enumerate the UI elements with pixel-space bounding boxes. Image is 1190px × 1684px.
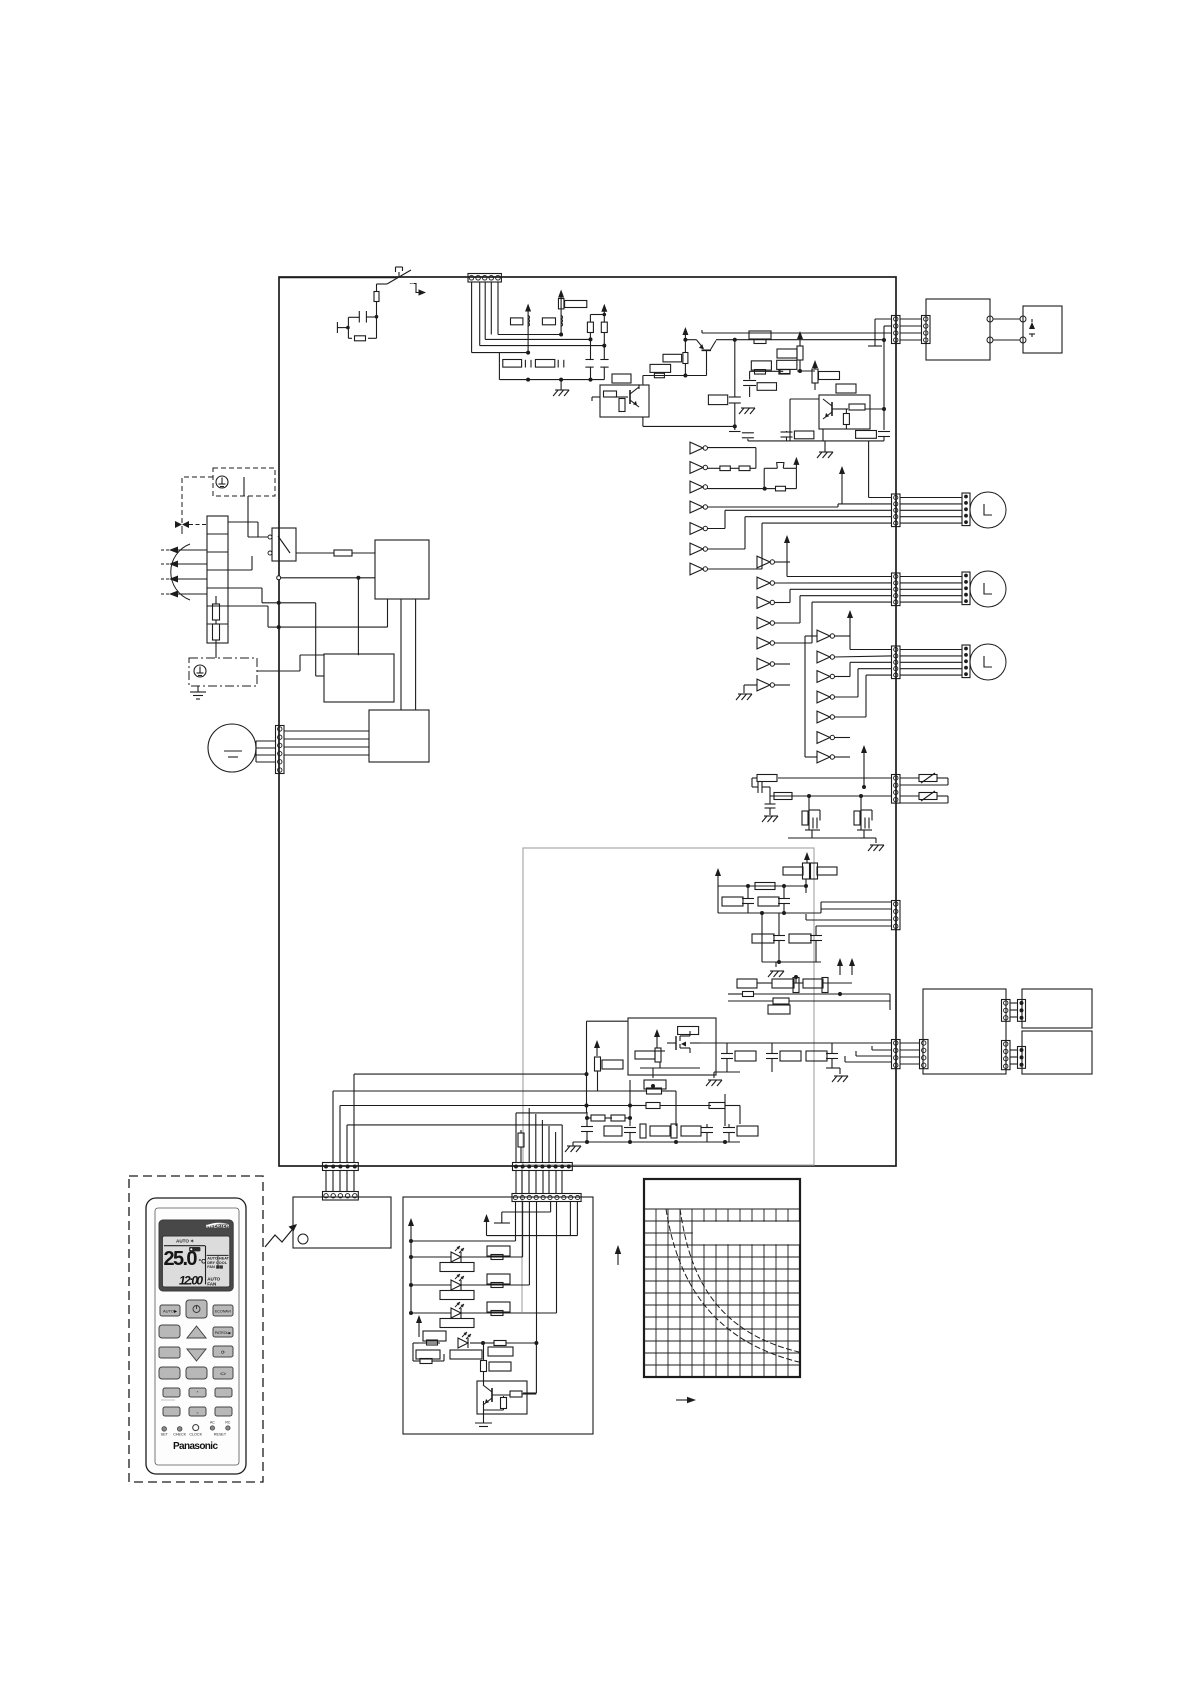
- connector CN-P: [892, 901, 901, 930]
- box LBL7: [488, 1347, 513, 1356]
- resistor R24: [742, 433, 754, 441]
- display pcb box: [923, 989, 1006, 1074]
- resistor R16: [812, 369, 818, 383]
- switch SW1: [387, 267, 411, 284]
- resistor RA1: [707, 466, 730, 471]
- capacitor C2: [558, 360, 564, 368]
- terminal plate: [337, 322, 349, 333]
- connector CN-R1: [892, 316, 901, 344]
- wire bb net1: [630, 1084, 676, 1104]
- capacitor CT2: [765, 796, 776, 815]
- box DISP2: [1022, 1031, 1092, 1074]
- bar sym: [494, 1219, 510, 1223]
- wire center cl: [750, 371, 784, 379]
- wire v543: [541, 1120, 543, 1163]
- ground GB1: [565, 1142, 581, 1152]
- wires CNR1-CNR2: [900, 319, 921, 340]
- indoor unit PCB outline: [279, 277, 896, 1166]
- box label B3: [708, 395, 727, 405]
- resistor RL1: [491, 1255, 503, 1260]
- buffer UB6: [757, 658, 775, 670]
- wire led3 dot: [409, 1311, 413, 1315]
- buffer UC7: [817, 751, 835, 763]
- graph y arrow: [615, 1245, 621, 1265]
- ground GT2: [868, 845, 884, 851]
- wire v563: [516, 1113, 587, 1163]
- wire e333: [702, 330, 892, 333]
- wire bus cn3: [485, 282, 592, 341]
- terminal strip TS1: [207, 516, 228, 643]
- box BQ3: [803, 979, 823, 988]
- wire uc7: [834, 756, 850, 758]
- shield box gray: [523, 848, 814, 1165]
- resistor Rsnub: [355, 336, 366, 341]
- wire v536: [535, 1114, 537, 1163]
- label box Q3: [612, 374, 631, 383]
- arrow A3: [160, 576, 207, 583]
- wire uc4: [834, 669, 892, 697]
- wire ua3: [707, 488, 764, 490]
- wire h1118: [0, 0, 1, 1]
- resistor R10: [650, 364, 671, 372]
- strip D1: [1018, 1000, 1026, 1022]
- resistor RP1: [803, 863, 810, 879]
- svg-text:CHECK: CHECK: [173, 1433, 186, 1437]
- box BB4: [681, 1126, 701, 1136]
- ground GT1: [762, 816, 778, 822]
- power arrow VQ1: [837, 958, 843, 975]
- led LED3: [451, 1302, 464, 1318]
- capacitor C6: [743, 381, 756, 398]
- remote lcd: [162, 1236, 229, 1287]
- box LBL5: [416, 1350, 440, 1359]
- box BP1: [722, 897, 743, 906]
- ground GP1: [768, 962, 784, 977]
- box BP3: [752, 934, 774, 943]
- fuse F2: [296, 550, 375, 556]
- buffer UC5: [817, 711, 835, 723]
- power arrow VI3: [416, 1315, 422, 1337]
- connector M2 strip: [962, 572, 970, 605]
- power arrow V2: [558, 290, 564, 335]
- capacitor CP2: [778, 886, 790, 913]
- power box PS1: [375, 540, 429, 599]
- connector CN-X1: [920, 1040, 929, 1069]
- neutral bar: [868, 345, 882, 347]
- label box Q4: [836, 384, 856, 393]
- connector CN-I: [512, 1194, 581, 1202]
- capacitor CB4: [723, 1124, 735, 1142]
- ground GB: [736, 694, 752, 700]
- resistor RQ1: [743, 992, 754, 997]
- brace arc: [171, 544, 190, 600]
- connector CN-M0: [276, 726, 285, 774]
- wire Q1 coll: [643, 351, 707, 385]
- dash-dot box earth: [189, 658, 257, 686]
- capacitor CB2: [624, 1128, 636, 1143]
- connector CN-L (disp): [323, 1163, 359, 1171]
- resistor RP4: [817, 867, 837, 875]
- resistor R15: [780, 370, 790, 374]
- capacitor CR1: [721, 1043, 733, 1072]
- wire Q4 out: [865, 407, 886, 411]
- graph curve 1: [666, 1209, 799, 1362]
- motor M1: [970, 492, 1006, 528]
- graph curve 2: [680, 1209, 799, 1352]
- wire uc3: [834, 662, 892, 676]
- svg-text:AC: AC: [210, 1420, 215, 1424]
- resistor RT1: [752, 775, 777, 782]
- wire r17 stub: [814, 383, 816, 390]
- btn row3L: [159, 1347, 180, 1358]
- arrow A2: [160, 561, 207, 568]
- btn auto: [160, 1305, 180, 1316]
- resistor R9: [663, 354, 682, 362]
- wire switch-fuse: [377, 284, 388, 292]
- box LBL3: [487, 1302, 510, 1312]
- resistor RLb: [440, 1291, 474, 1300]
- wire Q4 e: [790, 399, 823, 441]
- resistor RQ2: [793, 978, 799, 993]
- capacitor CR2: [766, 1043, 778, 1072]
- wire cni down a: [502, 1201, 551, 1219]
- wire ub3: [774, 589, 892, 602]
- resistor RP3: [783, 867, 803, 875]
- btn up: [187, 1326, 206, 1338]
- wire bus cn2: [480, 282, 607, 348]
- buffer UA2: [690, 462, 708, 474]
- svg-text:RC: RC: [225, 1420, 231, 1424]
- wire ts net2: [228, 606, 279, 627]
- svg-text:INVERTER: INVERTER: [206, 1224, 230, 1229]
- wire va2 stub: [0, 0, 1, 1]
- btn down: [187, 1349, 206, 1361]
- ground GI: [475, 1423, 492, 1427]
- box label B5: [751, 361, 771, 370]
- resistor RL5: [494, 1341, 506, 1346]
- resistor RB2: [646, 1103, 660, 1109]
- wires cni up: [516, 1171, 562, 1194]
- resistor R8: [601, 322, 607, 346]
- resistor R1: [511, 318, 523, 325]
- lcd ampm: [207, 1277, 220, 1287]
- remote dot labels: [161, 1433, 227, 1437]
- wire Q3 c: [638, 384, 640, 389]
- box LBL1: [487, 1246, 510, 1256]
- wire cr gnd2: [826, 1068, 840, 1074]
- power arrow VM1: [654, 1029, 660, 1040]
- capacitor CB3: [701, 1124, 713, 1142]
- resistor R5: [503, 360, 522, 368]
- indicator pcb box: [403, 1197, 593, 1434]
- btn row3R: [213, 1346, 233, 1357]
- resistor RP5: [755, 883, 775, 890]
- wires x2-d1: [1010, 1003, 1017, 1017]
- wire th net1: [778, 777, 892, 779]
- resistor RM2: [655, 1048, 661, 1062]
- wires M0 board: [284, 731, 369, 755]
- lcd temp: [164, 1248, 207, 1270]
- wire m out: [690, 1042, 890, 1044]
- fuse FL2: [213, 620, 220, 658]
- power arrow VI1: [484, 1201, 578, 1236]
- thermistor TH-B: [900, 791, 948, 803]
- wire h1125: [347, 1125, 562, 1163]
- buffer UA6: [690, 543, 708, 555]
- power arrow V3: [601, 304, 607, 315]
- inverter logo: [206, 1223, 230, 1229]
- box BR3: [806, 1051, 827, 1061]
- dashed wire valve: [182, 525, 207, 535]
- capacitor CP1: [742, 886, 754, 913]
- power arrow VA2: [839, 466, 845, 504]
- btn row2R: [213, 1327, 233, 1337]
- svg-text:FAN: FAN: [207, 1281, 217, 1286]
- connector CN-X3: [1002, 1041, 1011, 1070]
- wire R7R8 top: [590, 313, 606, 322]
- wire v556: [555, 1132, 557, 1163]
- resistor R21: [755, 370, 766, 375]
- wire bb top: [585, 1112, 589, 1120]
- wire L1 down: [0, 0, 1, 1]
- capacitor C7: [781, 431, 793, 441]
- bus filter: [499, 353, 604, 382]
- buffer UC2: [817, 651, 835, 663]
- wire ts net1: [228, 588, 279, 603]
- buffer UA3: [690, 481, 708, 493]
- coil L1: [528, 316, 530, 327]
- connector CN-M2: [892, 573, 901, 606]
- wire p-bus913: [718, 886, 821, 915]
- wire cr gnd1: [714, 1072, 740, 1078]
- rc net B: [854, 796, 872, 830]
- wire ua6: [707, 517, 745, 549]
- box BQ2: [772, 979, 794, 988]
- rc net A2: [788, 830, 860, 838]
- wire vi bus: [410, 1239, 412, 1313]
- sub box PS3: [369, 710, 429, 762]
- buffer UC3: [817, 671, 835, 683]
- wire net600: [277, 601, 324, 676]
- wire q-row: [728, 992, 890, 996]
- svg-text:RESET: RESET: [214, 1433, 227, 1437]
- wire th1 out: [763, 487, 767, 491]
- wire x884 down: [882, 326, 886, 430]
- svg-text:12:00: 12:00: [179, 1274, 203, 1288]
- buffer UB2: [757, 577, 775, 589]
- thermal sw TH1: [764, 463, 796, 489]
- resistor R18: [604, 391, 617, 397]
- wire led bus1: [409, 1201, 516, 1243]
- box BM2: [602, 1060, 623, 1069]
- remote dashed box: [129, 1176, 263, 1482]
- btn row6R: [215, 1407, 232, 1416]
- resistor R23: [794, 431, 814, 439]
- resistor RB6: [640, 1124, 646, 1138]
- buffer UA1: [690, 442, 708, 454]
- wire th net2: [770, 794, 892, 798]
- remote small dots: [162, 1425, 230, 1432]
- svg-text:CLOCK: CLOCK: [189, 1433, 202, 1437]
- btn power: [186, 1300, 207, 1318]
- wire cni right: [0, 0, 1, 1]
- motor M3: [970, 644, 1006, 680]
- receiver box: [293, 1197, 391, 1248]
- resistor R7: [587, 322, 593, 339]
- wire bb net2: [628, 1104, 711, 1108]
- receiver eye: [298, 1234, 308, 1244]
- connector CN-B (main): [513, 1163, 573, 1171]
- wire h1074: [354, 1021, 627, 1163]
- arrow A1: [160, 547, 207, 554]
- resistor RQIv: [501, 1398, 507, 1409]
- box BQ4: [768, 1005, 790, 1014]
- connector CN-M3: [892, 646, 901, 679]
- wire led2: [409, 1201, 529, 1287]
- pins TB2: [1020, 316, 1026, 343]
- power arrow V1: [525, 304, 531, 353]
- connector CN-S: [892, 1040, 901, 1069]
- svg-text:⌄: ⌄: [196, 1410, 200, 1415]
- wire ps2 top: [277, 576, 375, 655]
- box BQ1: [737, 979, 757, 988]
- wire ps1-ps3 b: [415, 599, 417, 710]
- svg-text:⌃: ⌃: [196, 1391, 200, 1396]
- rc net A: [802, 796, 820, 830]
- box label B6: [856, 431, 877, 439]
- btn row4L: [159, 1367, 180, 1379]
- power arrow V4: [682, 327, 688, 376]
- box BB1: [644, 1080, 666, 1089]
- connector M3 strip: [962, 645, 970, 678]
- transistor box QI: [477, 1381, 527, 1414]
- zigzag arrow: [265, 1224, 297, 1247]
- wire e2 right: [257, 655, 324, 671]
- outdoor box TB2: [1023, 306, 1062, 353]
- wire e319: [875, 319, 892, 346]
- led LED1: [451, 1246, 464, 1262]
- wire p-row: [718, 884, 806, 888]
- capacitor CX: [359, 311, 376, 323]
- wires l-strip: [326, 1171, 354, 1192]
- capacitor CP3: [773, 913, 785, 962]
- buffer UB3: [757, 597, 775, 609]
- wire b1b2: [797, 360, 815, 373]
- btn row5R: [215, 1388, 232, 1397]
- wires M0 left: [256, 741, 275, 762]
- box BP4: [789, 934, 811, 943]
- resistor RB5: [611, 1115, 632, 1121]
- motor M0: [208, 724, 256, 772]
- remote inner line: [155, 1208, 239, 1465]
- wire cap left: [348, 316, 359, 318]
- wire e326: [884, 325, 892, 327]
- box Q3: [600, 385, 649, 417]
- lcd icons: [207, 1257, 229, 1270]
- resistor RM1: [635, 1051, 655, 1059]
- btn row6L: [163, 1407, 180, 1416]
- resistor RT2: [774, 793, 792, 800]
- wire ua5: [707, 510, 725, 528]
- buffer UB7: [757, 679, 775, 691]
- svg-text:PATROL▶: PATROL▶: [215, 1331, 233, 1335]
- resistor R14: [797, 346, 803, 360]
- capacitor C3: [585, 339, 593, 379]
- buffer UA4: [690, 501, 708, 513]
- dash row5: [161, 1399, 175, 1401]
- power arrow VQ2: [849, 958, 855, 975]
- lcd divider: [164, 1246, 229, 1285]
- fuse FL1: [213, 596, 220, 620]
- snubber loop: [348, 317, 376, 339]
- relay RY1: [268, 528, 296, 561]
- wire row441: [748, 435, 884, 447]
- transistor QI: [483, 1385, 510, 1405]
- wire uc5: [834, 675, 892, 717]
- btn row4M: [186, 1367, 207, 1379]
- buffer UC1: [817, 630, 835, 642]
- wires x3-d2: [1010, 1050, 1017, 1064]
- connector M1 strip: [962, 493, 970, 526]
- power arrow VP1: [715, 868, 721, 887]
- buffer UC6: [817, 732, 835, 744]
- resistor RL2: [491, 1283, 503, 1288]
- resistor RQ4: [773, 998, 789, 1004]
- wires M2 out: [900, 577, 962, 603]
- wire rp top: [804, 879, 808, 888]
- connector CN-TH: [892, 775, 901, 804]
- box Q4: [819, 395, 870, 429]
- rc net B2: [857, 830, 876, 843]
- wire v529: [528, 1108, 530, 1163]
- resistor RP2: [811, 863, 818, 879]
- resistor RL6: [420, 1359, 432, 1364]
- dashed box drain pump: [213, 468, 275, 496]
- resistor RB3: [709, 1103, 725, 1109]
- transistor Q1: [696, 340, 716, 351]
- wires M3 out: [900, 650, 962, 676]
- connector CN-E: [468, 274, 501, 283]
- wire rl loop: [413, 1343, 444, 1361]
- wire caps row: [643, 417, 735, 426]
- buffer UB4: [757, 617, 775, 629]
- box BP2: [758, 897, 779, 906]
- svg-text:SET: SET: [161, 1433, 169, 1437]
- resistor R20: [757, 383, 776, 391]
- connector CN-M1: [892, 494, 901, 527]
- box LBL2: [487, 1274, 510, 1284]
- svg-text:AUTO ✶: AUTO ✶: [176, 1239, 194, 1244]
- box BB3: [650, 1126, 670, 1136]
- arrow A4: [160, 591, 207, 598]
- capacitor CB1: [581, 1118, 593, 1142]
- btn row6M: [189, 1407, 206, 1416]
- power arrow VT1: [861, 745, 867, 789]
- buffer UB5: [757, 637, 775, 649]
- wire vert bb: [630, 1068, 725, 1126]
- lcd opbox: [189, 1247, 200, 1251]
- valve sym: [175, 521, 189, 528]
- ground G3: [190, 686, 206, 699]
- lcd auto text: [176, 1239, 194, 1244]
- motor M2: [970, 571, 1006, 607]
- ground G4: [817, 447, 833, 458]
- remote body: [146, 1198, 246, 1474]
- capacitor CP4: [810, 926, 822, 962]
- ground G1: [553, 380, 569, 396]
- remote display frame: [159, 1220, 233, 1291]
- wire ub6: [774, 663, 790, 665]
